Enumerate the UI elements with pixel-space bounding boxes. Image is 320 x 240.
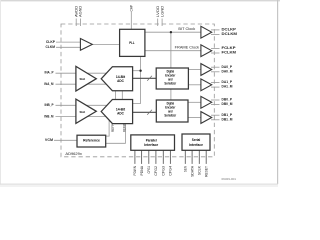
wire FCLKP out	[211, 47, 220, 49]
svg-text:Serializer: Serializer	[164, 81, 176, 85]
svg-text:SEN: SEN	[184, 166, 188, 172]
wire REFP inter-ADC	[114, 91, 116, 100]
junction dot BIT clock	[170, 31, 172, 33]
wire ADC A clock stub	[133, 70, 141, 72]
wire DB1_M out	[211, 119, 220, 121]
svg-text:DB0_M: DB0_M	[222, 102, 233, 106]
serial interface box	[182, 134, 210, 150]
page frame top band	[0, 0, 280, 1]
wire DA1_M out	[211, 86, 220, 88]
wire LGND pin	[161, 19, 163, 27]
wire CLKM input	[56, 46, 80, 48]
wire PDNA pin	[141, 150, 143, 164]
svg-text:PLL: PLL	[129, 41, 134, 45]
buffer DA0	[201, 64, 212, 76]
wire REFP net	[106, 120, 109, 136]
wire SCLK pin	[198, 150, 200, 164]
svg-text:Digital: Digital	[167, 101, 174, 105]
svg-text:DA1_M: DA1_M	[222, 85, 233, 89]
wire DA1_P out	[211, 82, 220, 84]
svg-text:Serializer: Serializer	[164, 113, 176, 117]
svg-text:Interface: Interface	[144, 143, 158, 147]
ADC B pentagon	[101, 100, 132, 124]
wire CAP pin to PLL	[130, 12, 132, 29]
svg-text:Interface: Interface	[189, 143, 203, 147]
svg-text:DA0_P: DA0_P	[222, 65, 233, 69]
svg-text:INB_M: INB_M	[44, 114, 53, 118]
wire serializer B out 0	[188, 101, 201, 103]
wire FCLKM out	[211, 52, 220, 54]
serializer B box	[156, 100, 188, 122]
wire serializer A out 1	[188, 84, 201, 86]
wire serializer B out 1	[188, 117, 201, 119]
svg-text:REFM: REFM	[123, 124, 127, 132]
op-amp SHA B	[76, 99, 96, 123]
wire DCLKP out	[211, 29, 220, 31]
wire SEN pin	[184, 150, 186, 164]
svg-text:CAP: CAP	[130, 4, 134, 11]
wire DCLKM out	[211, 34, 220, 36]
wire FRAME clock net	[145, 50, 201, 52]
bus slash A	[147, 76, 152, 81]
svg-text:ADC: ADC	[117, 79, 124, 83]
svg-text:DCLKP: DCLKP	[222, 28, 237, 32]
wire INA_P input	[56, 72, 107, 74]
op-amp SHA A	[76, 66, 96, 91]
bus ADC A to serializer A	[133, 77, 157, 79]
svg-text:RESET: RESET	[204, 165, 208, 177]
svg-text:BIT Clock: BIT Clock	[178, 27, 195, 31]
svg-text:SHA: SHA	[80, 77, 87, 81]
reference box	[77, 135, 106, 147]
svg-text:CFG3: CFG3	[162, 166, 166, 176]
buffer DCLK	[201, 26, 212, 38]
wire LVDD pin	[157, 19, 159, 27]
wire DA0_P out	[211, 66, 220, 68]
svg-text:ADC: ADC	[117, 112, 124, 116]
wire RESET pin	[205, 150, 207, 164]
page frame bottom edge	[0, 184, 278, 185]
op-amp clock input buffer	[80, 39, 92, 51]
wire serializer A out 0	[188, 69, 201, 71]
buffer DB1	[201, 112, 212, 124]
svg-text:DA1_P: DA1_P	[222, 80, 233, 84]
svg-text:SDATA: SDATA	[190, 165, 194, 177]
wire CFG1 pin	[148, 150, 150, 164]
wire AGND pin	[79, 19, 81, 27]
svg-text:CFG4: CFG4	[169, 166, 173, 176]
wire BIT clock net	[145, 31, 201, 33]
page frame right edge	[277, 0, 278, 184]
parallel interface box	[131, 135, 175, 150]
buffer DA1	[201, 79, 212, 91]
svg-text:SCLK: SCLK	[198, 165, 202, 175]
wire clock buffer to PLL	[92, 43, 119, 45]
svg-text:and: and	[168, 109, 172, 113]
svg-text:FRAME Clock: FRAME Clock	[175, 46, 200, 50]
buffer FCLK	[201, 45, 212, 57]
wire INB_P input	[56, 104, 107, 106]
svg-text:14-Bit: 14-Bit	[116, 108, 126, 112]
wire AVDD pin	[75, 19, 77, 27]
svg-text:Reference: Reference	[83, 138, 100, 142]
bus slash B	[147, 110, 152, 115]
chip boundary dashed rect	[61, 24, 214, 157]
svg-text:FCLKP: FCLKP	[222, 46, 237, 50]
wire INB_M input	[56, 116, 107, 118]
svg-text:and: and	[168, 77, 172, 81]
wire DB0_P out	[211, 99, 220, 101]
svg-text:CFG2: CFG2	[154, 166, 158, 176]
svg-text:AVDD: AVDD	[74, 5, 78, 17]
svg-text:DCLKM: DCLKM	[222, 32, 238, 36]
wire SDATA pin	[191, 150, 193, 164]
svg-text:Parallel: Parallel	[146, 139, 157, 143]
svg-text:DA0_M: DA0_M	[222, 69, 233, 73]
junction dot ADC clock	[139, 70, 141, 72]
wire CFG4 pin	[169, 150, 171, 164]
svg-text:09329-001: 09329-001	[222, 177, 237, 181]
wire serializer clock vertical	[170, 32, 172, 100]
wire INA_M input	[56, 83, 107, 85]
ADC A pentagon	[101, 67, 132, 91]
svg-text:DB1_P: DB1_P	[222, 113, 233, 117]
buffer DB0	[201, 96, 212, 108]
svg-text:CLKM: CLKM	[46, 45, 56, 49]
svg-text:LGND: LGND	[160, 5, 164, 17]
svg-text:14-Bit: 14-Bit	[116, 75, 126, 79]
bus ADC B to serializer B	[133, 111, 157, 113]
svg-text:AGND: AGND	[79, 5, 83, 17]
svg-text:PDNA: PDNA	[140, 165, 144, 175]
svg-text:CFG1: CFG1	[147, 166, 151, 174]
wire REFM net	[106, 124, 126, 144]
svg-text:LVDD: LVDD	[156, 5, 160, 17]
wire ADC clock vertical	[133, 56, 141, 103]
svg-text:Encoder: Encoder	[165, 73, 175, 77]
svg-text:VCM: VCM	[45, 138, 53, 142]
svg-text:INA_M: INA_M	[44, 82, 53, 86]
svg-text:FCLKM: FCLKM	[222, 51, 237, 55]
svg-text:REFP: REFP	[111, 123, 115, 132]
svg-text:Serial: Serial	[192, 138, 201, 142]
svg-text:INB_P: INB_P	[45, 103, 55, 107]
svg-text:AD9629x: AD9629x	[65, 152, 82, 156]
serializer A box	[156, 68, 188, 89]
PLL box	[120, 29, 145, 56]
wire DB0_M out	[211, 104, 220, 106]
wire CFG3 pin	[162, 150, 164, 164]
svg-text:Digital: Digital	[167, 69, 174, 73]
wire DB1_P out	[211, 114, 220, 116]
wire REFM inter-ADC	[121, 91, 123, 100]
svg-text:DB0_P: DB0_P	[222, 98, 233, 102]
svg-text:DB1_M: DB1_M	[222, 117, 233, 121]
wire CFG2 pin	[155, 150, 157, 164]
wire CLKP input	[56, 41, 80, 43]
page frame left edge	[0, 0, 1, 187]
wire DA0_M out	[211, 71, 220, 73]
svg-text:CLKP: CLKP	[46, 40, 56, 44]
wire PDWN pin	[134, 150, 136, 164]
svg-text:PDWN: PDWN	[133, 166, 137, 176]
wire VCM input	[54, 139, 77, 141]
svg-text:INA_P: INA_P	[45, 71, 55, 75]
svg-text:SHA: SHA	[80, 110, 87, 114]
svg-text:Encoder: Encoder	[165, 105, 175, 109]
